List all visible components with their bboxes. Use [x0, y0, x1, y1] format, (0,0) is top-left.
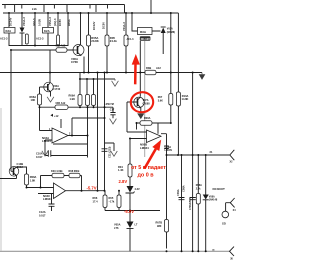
- svg-text:C17: C17: [110, 109, 115, 112]
- svg-text:17.4: 17.4: [93, 200, 99, 204]
- svg-text:K09 4.09k: K09 4.09k: [51, 170, 63, 173]
- svg-text:0.017: 0.017: [39, 213, 46, 217]
- svg-text:V06A: V06A: [53, 84, 60, 88]
- svg-text:(AV)-3: (AV)-3: [32, 18, 36, 26]
- svg-text:V05A: V05A: [114, 222, 121, 226]
- svg-text:R10A: R10A: [182, 94, 189, 98]
- svg-text:AC1-3: AC1-3: [36, 37, 44, 41]
- svg-text:C08A: C08A: [181, 185, 185, 192]
- svg-text:LM324: LM324: [43, 197, 52, 201]
- svg-text:2.2k: 2.2k: [32, 8, 37, 11]
- svg-text:4.3V: 4.3V: [135, 188, 140, 191]
- svg-text:R3A: R3A: [140, 30, 147, 34]
- svg-text:LM324: LM324: [140, 146, 149, 150]
- svg-text:A12: A12: [156, 66, 161, 70]
- svg-text:от 5 в падает: от 5 в падает: [131, 165, 166, 171]
- svg-text:DC3OUT: DC3OUT: [213, 187, 226, 191]
- svg-text:0.017: 0.017: [36, 155, 43, 159]
- svg-text:1N4148: 1N4148: [209, 199, 218, 202]
- svg-text:K2A: K2A: [6, 29, 12, 33]
- svg-text:C768: C768: [71, 60, 78, 64]
- svg-text:R04A: R04A: [67, 19, 71, 26]
- svg-text:1.8K: 1.8K: [30, 178, 36, 182]
- svg-text:C12A: C12A: [39, 210, 46, 214]
- svg-text:LT: LT: [135, 223, 138, 226]
- svg-text:DC12V: DC12V: [92, 21, 96, 30]
- svg-text:470UF/50V: 470UF/50V: [188, 197, 192, 210]
- svg-text:(AV)-3: (AV)-3: [53, 18, 57, 26]
- svg-text:04B A12: 04B A12: [56, 102, 66, 105]
- svg-text:1.4K: 1.4K: [118, 168, 124, 172]
- svg-text:C10A: C10A: [36, 152, 43, 156]
- svg-text:L05UYM: L05UYM: [104, 103, 113, 106]
- svg-text:1.9K: 1.9K: [70, 97, 76, 101]
- svg-text:LM324: LM324: [42, 139, 51, 143]
- svg-text:10K: 10K: [31, 98, 36, 102]
- svg-text:04B A12: 04B A12: [56, 45, 66, 48]
- svg-text:DC14V: DC14V: [9, 17, 13, 26]
- svg-text:24.4k: 24.4k: [110, 39, 117, 43]
- svg-text:3.9K: 3.9K: [158, 100, 163, 103]
- svg-text:до 0 в: до 0 в: [138, 173, 155, 179]
- svg-text:C08A: C08A: [165, 145, 172, 149]
- svg-text:DC5V: DC5V: [58, 19, 62, 26]
- svg-text:V04A-3: V04A-3: [122, 22, 126, 31]
- svg-text:C1740: C1740: [53, 87, 61, 91]
- svg-text:V05A-3: V05A-3: [48, 17, 52, 26]
- svg-text:C09A: C09A: [176, 189, 180, 196]
- svg-text:DC-12V: DC-12V: [141, 37, 150, 41]
- svg-text:980: 980: [157, 224, 162, 228]
- svg-text:DC5V: DC5V: [102, 22, 106, 29]
- svg-text:R05: R05: [109, 196, 114, 200]
- svg-text:+12: +12: [54, 114, 59, 118]
- svg-text:V04A-3: V04A-3: [22, 17, 26, 26]
- svg-text:-5.7V: -5.7V: [87, 185, 97, 190]
- svg-text:~17k: ~17k: [109, 200, 115, 204]
- svg-text:2.2k: 2.2k: [196, 187, 201, 190]
- svg-text:L003V: L003V: [165, 148, 173, 152]
- svg-text:C1088: C1088: [143, 102, 151, 105]
- svg-text:(M4M8): (M4M8): [167, 31, 175, 34]
- svg-text:R04: R04: [118, 165, 123, 169]
- svg-text:R06: R06: [93, 196, 98, 200]
- svg-text:GD: GD: [222, 222, 226, 225]
- svg-text:0.01R: 0.01R: [38, 19, 42, 26]
- svg-text:C06A: C06A: [17, 165, 24, 169]
- svg-text:2.8V: 2.8V: [119, 179, 128, 184]
- svg-text:-5.0V: -5.0V: [124, 209, 134, 214]
- svg-text:AC1-3: AC1-3: [0, 37, 8, 41]
- svg-text:LT6: LT6: [114, 226, 119, 230]
- svg-text:C11 (223): C11 (223): [108, 146, 112, 158]
- svg-text:R06A: R06A: [30, 95, 37, 99]
- svg-text:C10B: C10B: [17, 162, 24, 166]
- svg-text:R3B: R3B: [146, 66, 151, 70]
- svg-text:R08 680k: R08 680k: [69, 170, 80, 173]
- svg-text:R07B: R07B: [156, 220, 163, 224]
- svg-text:AC1-3: AC1-3: [127, 38, 135, 41]
- svg-text:R08A: R08A: [144, 117, 151, 120]
- svg-text:23.8K: 23.8K: [91, 39, 98, 43]
- svg-text:14.8K: 14.8K: [182, 97, 189, 101]
- svg-text:R08A: R08A: [30, 175, 37, 179]
- svg-text:K2A: K2A: [44, 29, 50, 33]
